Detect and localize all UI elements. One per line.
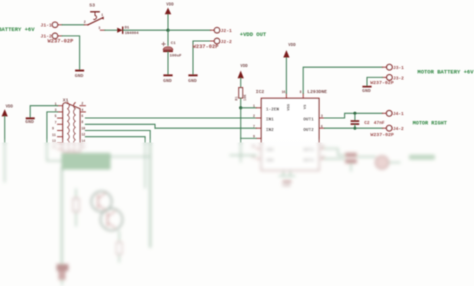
frosted wash over bottom bbox=[0, 138, 474, 147]
